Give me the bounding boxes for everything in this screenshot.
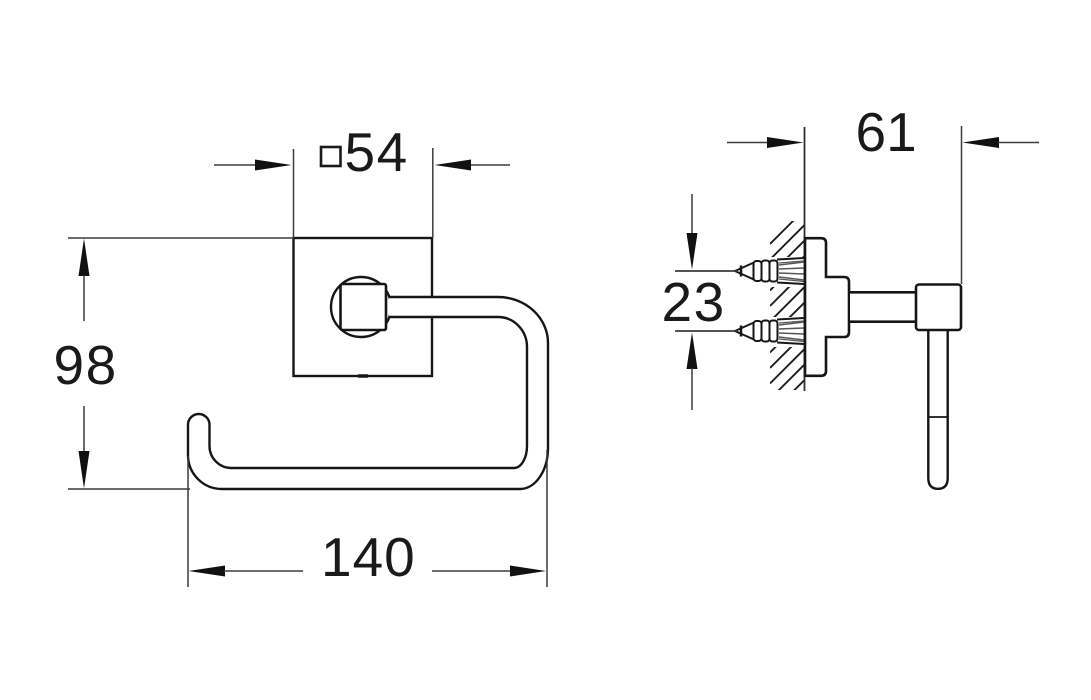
dim 140: right arrow bbox=[432, 566, 546, 577]
dim 140: left arrow bbox=[189, 566, 304, 577]
wall face line bbox=[804, 127, 806, 391]
wall plate (front) bbox=[294, 238, 433, 376]
mounting boss square bbox=[341, 284, 387, 330]
dim 61: extension line right bbox=[961, 126, 963, 284]
svg-text:140: 140 bbox=[321, 526, 416, 588]
dim 23: top arrow bbox=[687, 194, 698, 270]
arm tube (side) bbox=[849, 292, 918, 321]
dim 23: extension line bottom bbox=[675, 330, 737, 332]
screw top bbox=[675, 258, 804, 284]
dim 61: left arrow bbox=[727, 137, 804, 148]
svg-text:98: 98 bbox=[54, 334, 118, 396]
dim 61: right arrow bbox=[963, 137, 1040, 148]
svg-text:61: 61 bbox=[856, 101, 917, 163]
dim 98: extension line top bbox=[68, 237, 294, 239]
svg-text:23: 23 bbox=[662, 271, 726, 333]
dim 54: right arrow bbox=[435, 160, 511, 171]
plate profile (side) bbox=[805, 238, 849, 376]
dim 98: extension line bottom bbox=[68, 488, 190, 490]
dim 54: extension line right bbox=[432, 148, 434, 238]
dim 54: square symbol bbox=[321, 147, 341, 166]
dim 98: bottom arrow bbox=[79, 406, 90, 489]
holder arm (front, U shape) bbox=[188, 297, 548, 489]
center mark bottom of plate bbox=[358, 374, 368, 378]
dim 98: top arrow bbox=[79, 239, 90, 322]
screw bottom bbox=[675, 318, 804, 344]
mounting boss circle bbox=[331, 277, 391, 337]
dim 54: left arrow bbox=[214, 160, 292, 171]
corner block (side) bbox=[916, 285, 961, 331]
down bar (side) bbox=[928, 330, 948, 489]
dim 23: extension line top bbox=[675, 270, 737, 272]
wall hatching bbox=[770, 209, 805, 430]
svg-text:54: 54 bbox=[345, 121, 409, 183]
dim 23: bottom arrow bbox=[687, 333, 698, 411]
dim 140: extension line right bbox=[546, 450, 548, 587]
dim 54: extension line left bbox=[293, 149, 295, 238]
dim 140: extension line left bbox=[187, 456, 189, 587]
